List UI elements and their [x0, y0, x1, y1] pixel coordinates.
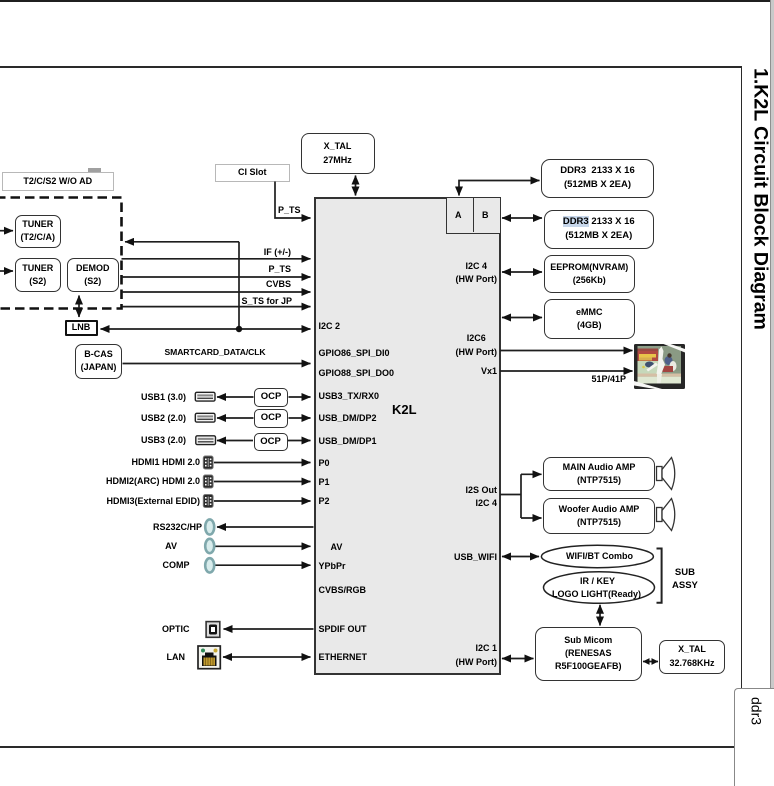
pin USB_DM/DP1 [319, 437, 377, 446]
connector HDMI icon 1 [203, 456, 213, 469]
connector RCA jack COMP [205, 558, 214, 572]
label USB3 (2.0) [141, 436, 186, 445]
label P_TS [268, 265, 291, 274]
wire HDMI2 to P1 [214, 481, 311, 483]
pin Vx1 [481, 367, 497, 376]
pin I2C 1 (HW Port) [456, 642, 498, 669]
wire HDMI1 to P0 [214, 462, 311, 464]
crystal X_TAL 27MHz [301, 133, 375, 174]
pin YPbPr [319, 562, 346, 571]
memory DDR3 bank 2 [544, 210, 655, 249]
T2/C/S2 W/O AD label box [2, 172, 114, 192]
wire S_TS for JP [123, 306, 311, 308]
display panel image 51P/41P [634, 344, 685, 389]
wire USB1 to OCP [217, 396, 254, 398]
speaker icon woofer [657, 499, 675, 531]
chip name K2L [392, 403, 417, 416]
wire I2C2 vertical [238, 242, 240, 329]
label SUB ASSY [672, 566, 698, 594]
label LAN [167, 653, 186, 662]
pin I2S Out / I2C 4 [465, 484, 497, 511]
LNB box [65, 320, 98, 337]
dashed box T2/C/S2 W/O AD group [0, 198, 122, 309]
pin CVBS/RGB [319, 586, 367, 595]
memory DDR3 bank 1 [541, 159, 654, 199]
connector USB port icon 1 [195, 392, 215, 401]
pin I2C6 (HW Port) [456, 332, 498, 359]
wire I2S to Woofer Audio AMP [521, 517, 542, 519]
label S_TS for JP [241, 297, 292, 306]
wire RS232C/HP from K2L [217, 526, 314, 528]
OCP box 3 [254, 433, 288, 451]
wire Vx1 to panel [500, 370, 633, 372]
wire I2S Out trunk [500, 474, 521, 518]
connector HDMI icon 3 [203, 495, 213, 508]
wire IR/KEY to Sub Micom [599, 605, 601, 626]
wire OCP to USB_DM/DP2 [289, 417, 311, 419]
wire CVBS [122, 291, 311, 293]
CI Slot box [215, 164, 291, 182]
memory eMMC [544, 299, 636, 339]
wire P_TS [122, 276, 311, 278]
crystal X_TAL 32.768KHz [659, 640, 725, 674]
speaker icon main [657, 458, 675, 490]
pin P2 [319, 497, 330, 506]
connector LAN RJ45 icon [198, 646, 220, 669]
wire port B to DDR3 bank2 [502, 217, 542, 219]
vertical page title [746, 68, 772, 330]
pin P1 [319, 478, 330, 487]
WIFI/BT Combo ellipse [541, 545, 653, 567]
label 51P/41P [591, 375, 626, 384]
wire OCP to USB_DM/DP1 [288, 440, 311, 442]
wire CI Slot P_TS to K2L [275, 182, 311, 219]
demodulator DEMOD (S2) [67, 258, 120, 292]
pin GPIO88_SPI_DO0 [319, 369, 395, 378]
label USB2 (2.0) [141, 414, 186, 423]
wire I2C4 to EEPROM [502, 271, 542, 273]
memory EEPROM(NVRAM) [544, 255, 636, 293]
wire SMARTCARD_DATA/CLK [123, 363, 311, 365]
wire SPDIF OUT to OPTIC [224, 628, 314, 630]
wire RF input to TUNER (T2/C/A) [0, 230, 13, 232]
connector RCA jack AV [205, 539, 214, 553]
wire ETHERNET to LAN [223, 656, 311, 658]
B-CAS (JAPAN) box [75, 344, 122, 380]
ddr3 tab label [749, 697, 765, 725]
pin AV [331, 543, 343, 552]
label RS232C/HP [153, 523, 202, 532]
wire IF (+/-) [122, 258, 311, 260]
OCP box 1 [254, 388, 288, 407]
top border line [0, 0, 774, 2]
pin SPDIF OUT [319, 625, 367, 634]
node I2C2 junction [236, 326, 242, 332]
diagram right border [741, 66, 743, 688]
tuner TUNER (S2) [15, 258, 62, 292]
label CVBS [266, 280, 291, 289]
pin ETHERNET [319, 653, 368, 662]
label HDMI1 HDMI 2.0 [131, 458, 200, 467]
label HDMI3(External EDID) [106, 497, 200, 506]
connector OPTIC toslink icon [206, 622, 220, 638]
wire I2C6 to panel [500, 350, 633, 352]
wire USB2 to OCP [217, 417, 254, 419]
pin P0 [319, 459, 330, 468]
OCP box 2 [254, 409, 288, 428]
label USB1 (3.0) [141, 393, 186, 402]
label SMARTCARD_DATA/CLK [165, 348, 266, 357]
wire X_TAL 27MHz to K2L [355, 176, 357, 196]
connector RCA jack RS232C/HP [205, 519, 214, 534]
pin USB_DM/DP2 [319, 414, 377, 423]
wire LNB to K2L I2C2 [101, 328, 311, 330]
wire RF input to TUNER (S2) [0, 270, 13, 272]
connector HDMI icon 2 [203, 475, 213, 488]
connector USB port icon 3 [196, 436, 216, 445]
pin I2C 2 [319, 322, 341, 331]
ddr3 tab box [734, 688, 774, 786]
pin USB_WIFI [454, 553, 497, 562]
wire K2L to eMMC [502, 317, 542, 319]
wire AV input [215, 545, 311, 547]
label IR / KEY LOGO LIGHT(Ready) [580, 577, 615, 586]
amplifier Woofer Audio AMP [543, 498, 655, 534]
wire USB3 to OCP [217, 440, 253, 442]
pin I2C 4 (HW Port) [456, 260, 498, 287]
wire COMP to YPbPr [215, 564, 311, 566]
label WIFI/BT Combo [566, 552, 633, 561]
wire DDR3 bank1 to port A [459, 181, 540, 196]
label OPTIC [162, 625, 190, 634]
SUB ASSY bracket [657, 549, 662, 603]
tuner TUNER (T2/C/A) [15, 215, 62, 248]
IR/KEY LOGO LIGHT ellipse [544, 572, 655, 604]
wire I2C2 return to tuner block [125, 241, 239, 243]
pin GPIO86_SPI_DI0 [319, 349, 390, 358]
header rule line [0, 66, 742, 68]
Sub Micom (RENESAS R5F100GEAFB) box [535, 627, 642, 682]
label HDMI2(ARC) HDMI 2.0 [106, 477, 200, 486]
wire USB_WIFI to WIFI/BT Combo [502, 556, 539, 558]
wire OCP to USB3_TX/RX0 [289, 396, 311, 398]
T2/C/S2 W/O AD label tab (gray mark) [88, 168, 101, 173]
bottom rule line [0, 746, 734, 748]
label P_TS from CI Slot [278, 206, 301, 215]
connector USB port icon 2 [195, 413, 215, 422]
label AV [165, 542, 177, 551]
wire Sub Micom to X_TAL 32.768KHz [643, 661, 658, 663]
K2L main SoC box U1 [314, 197, 501, 675]
wire I2S to MAIN Audio AMP [521, 473, 542, 475]
label COMP [163, 561, 190, 570]
A/B DDR port box on K2L [446, 197, 501, 234]
wire HDMI3 to P2 [214, 500, 311, 502]
label IF (+/-) [264, 248, 291, 257]
wire I2C1 to Sub Micom [502, 658, 534, 660]
pin USB3_TX/RX0 [319, 392, 380, 401]
wire DEMOD to LNB [78, 296, 80, 318]
right edge strip [770, 0, 772, 786]
amplifier MAIN Audio AMP [543, 457, 655, 491]
